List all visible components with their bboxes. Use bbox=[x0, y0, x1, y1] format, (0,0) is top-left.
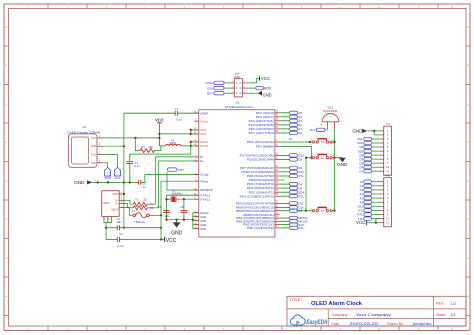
svg-text:6: 6 bbox=[387, 200, 389, 204]
svg-text:VBUS: VBUS bbox=[111, 207, 118, 211]
net label RST (ICSP) bbox=[207, 91, 230, 95]
svg-text:PD6(T1/OC4D#/ADC9): PD6(T1/OC4D#/ADC9) bbox=[242, 170, 275, 174]
rev text bbox=[436, 301, 456, 306]
net label A5 (P2) bbox=[360, 180, 380, 184]
svg-text:2: 2 bbox=[99, 143, 101, 146]
net label D9 (P1) bbox=[359, 153, 379, 157]
svg-text:SDA: SDA bbox=[91, 161, 97, 165]
net label A4 (P2) bbox=[360, 184, 380, 188]
svg-text:PD3 (TXD1/INT3): PD3 (TXD1/INT3) bbox=[247, 182, 274, 186]
net label D11 (P2) bbox=[358, 209, 379, 213]
svg-text:P2: P2 bbox=[386, 174, 390, 178]
svg-text:K2: K2 bbox=[321, 157, 325, 160]
svg-text:GND: GND bbox=[91, 144, 97, 148]
net label SCK bbox=[279, 223, 304, 227]
wire crystal ground bus bbox=[165, 219, 194, 221]
svg-text:REV:: REV: bbox=[436, 301, 444, 305]
svg-text:D12: D12 bbox=[310, 128, 316, 132]
svg-text:4: 4 bbox=[99, 160, 101, 163]
title block grid bbox=[287, 296, 466, 326]
svg-text:GND: GND bbox=[113, 192, 119, 196]
svg-text:VCC: VCC bbox=[155, 118, 164, 123]
net label D6 bbox=[279, 166, 302, 170]
svg-text:BUZZER: BUZZER bbox=[323, 109, 338, 113]
svg-text:UCap: UCap bbox=[200, 173, 209, 177]
node AVCC branch junction bbox=[190, 145, 192, 147]
net label A2 (P2) bbox=[360, 192, 380, 196]
push button K1 bbox=[310, 139, 335, 146]
net label A0 bbox=[279, 131, 302, 135]
svg-text:R1: R1 bbox=[135, 197, 139, 201]
svg-text:0805: 0805 bbox=[170, 141, 177, 145]
svg-text:D: D bbox=[5, 142, 7, 144]
net label A1 bbox=[279, 127, 302, 131]
svg-text:25: 25 bbox=[275, 178, 278, 180]
net port SCL bbox=[115, 167, 121, 179]
svg-text:9: 9 bbox=[340, 6, 342, 8]
svg-text:5: 5 bbox=[184, 6, 186, 8]
net label RXL bbox=[279, 226, 304, 230]
svg-text:6: 6 bbox=[239, 91, 241, 95]
node VCC rail junctions bbox=[134, 133, 160, 139]
svg-text:E: E bbox=[5, 181, 7, 183]
svg-text:PD2 (RXD1/INT2): PD2 (RXD1/INT2) bbox=[247, 186, 274, 190]
svg-text:7: 7 bbox=[262, 6, 264, 8]
svg-text:E: E bbox=[467, 181, 469, 183]
svg-text:P1: P1 bbox=[386, 122, 390, 126]
svg-text:11: 11 bbox=[275, 216, 278, 218]
wire ground rail bbox=[93, 181, 139, 183]
svg-text:1.0: 1.0 bbox=[450, 301, 456, 306]
svg-text:2020-03-20: 2020-03-20 bbox=[350, 321, 379, 326]
capacitor C6 bbox=[180, 198, 187, 220]
net label MISO (ICSP) bbox=[205, 81, 229, 85]
svg-text:H: H bbox=[5, 296, 7, 298]
power flag VCC at ICSP bbox=[247, 76, 271, 83]
wire PE6 to K1 (net D7) bbox=[279, 137, 311, 143]
ground port GND left bbox=[74, 180, 92, 185]
svg-text:PC7(ICP3/CLK0/OC4A): PC7(ICP3/CLK0/OC4A) bbox=[240, 154, 274, 158]
net label MISO bbox=[279, 216, 308, 220]
svg-text:USB1: USB1 bbox=[102, 201, 110, 205]
wire VCC to MCU VCC pins bbox=[159, 129, 198, 135]
net label A0 (P2) bbox=[360, 200, 380, 204]
resistor R2 bbox=[124, 202, 154, 210]
wire L1 to AVCC pins bbox=[181, 141, 199, 146]
svg-text:Date:: Date: bbox=[331, 322, 339, 326]
wire button right rail bbox=[333, 130, 335, 212]
svg-text:26: 26 bbox=[275, 170, 278, 172]
wire USB shell to cap loop bbox=[105, 223, 107, 240]
net label D12 bbox=[279, 170, 304, 174]
wire C3 to MCU UCap bbox=[145, 175, 199, 183]
svg-text:A0: A0 bbox=[298, 131, 302, 135]
svg-text:16MHz: 16MHz bbox=[171, 192, 182, 196]
svg-text:F: F bbox=[467, 219, 469, 221]
net port SDA bbox=[105, 167, 111, 179]
svg-text:RESET#: RESET# bbox=[200, 188, 213, 192]
net label D0 bbox=[279, 186, 302, 190]
svg-text:UVcc: UVcc bbox=[200, 119, 209, 123]
net label D5 bbox=[279, 158, 302, 162]
net label D13 bbox=[279, 154, 304, 158]
svg-text:PB7(OC0A/OC1C/PCINT7/RTS#): PB7(OC0A/OC1C/PCINT7/RTS#) bbox=[236, 202, 274, 206]
svg-text:2: 2 bbox=[387, 184, 389, 188]
inductor L1 bbox=[159, 138, 180, 146]
svg-text:PD1 (SDA/INT1): PD1 (SDA/INT1) bbox=[249, 190, 274, 194]
svg-text:33: 33 bbox=[275, 144, 278, 146]
net label TXL bbox=[279, 174, 304, 178]
svg-text:4: 4 bbox=[387, 141, 389, 145]
net label D11 bbox=[279, 202, 304, 206]
power flag VCC top bbox=[155, 118, 164, 146]
svg-text:1: 1 bbox=[387, 129, 389, 133]
date row bbox=[331, 321, 431, 326]
svg-text:11: 11 bbox=[417, 6, 420, 8]
net label A1 (P2) bbox=[360, 196, 380, 200]
svg-text:41: 41 bbox=[275, 111, 278, 113]
svg-text:8: 8 bbox=[301, 6, 303, 8]
svg-text:RST: RST bbox=[207, 91, 213, 95]
svg-text:U2: U2 bbox=[82, 125, 86, 129]
svg-text:31: 31 bbox=[275, 157, 278, 159]
net label RXL (P2) bbox=[358, 213, 380, 217]
net label D9 bbox=[279, 209, 302, 213]
svg-text:VCC: VCC bbox=[200, 132, 207, 136]
svg-text:PE2 (HWB#): PE2 (HWB#) bbox=[256, 145, 274, 149]
svg-text:PF0 (ADC0): PF0 (ADC0) bbox=[256, 111, 274, 115]
svg-text:PB0 (SS/PCINT0): PB0 (SS/PCINT0) bbox=[247, 226, 274, 230]
svg-text:10k: 10k bbox=[148, 145, 153, 149]
USB1 pins bbox=[113, 192, 125, 208]
net label A3 (P2) bbox=[360, 188, 380, 192]
svg-text:5: 5 bbox=[387, 196, 389, 200]
pin header P2 bbox=[379, 174, 391, 227]
wire button left rail bbox=[305, 157, 307, 212]
svg-text:7: 7 bbox=[108, 219, 110, 221]
svg-text:28: 28 bbox=[275, 213, 278, 215]
USB connector USB1 body bbox=[102, 191, 120, 217]
svg-text:32: 32 bbox=[275, 153, 278, 155]
net label D13 (P2) bbox=[358, 205, 379, 209]
svg-text:GND: GND bbox=[263, 93, 273, 98]
svg-text:4: 4 bbox=[387, 192, 389, 196]
buzzer SG1 bbox=[320, 106, 339, 130]
svg-text:A: A bbox=[5, 26, 7, 29]
net label D12 (buzzer) bbox=[310, 128, 327, 132]
svg-text:B: B bbox=[467, 65, 469, 67]
svg-text:8: 8 bbox=[387, 208, 389, 212]
svg-text:D-: D- bbox=[116, 202, 119, 206]
node ground rail junctions bbox=[97, 181, 131, 183]
power port VCC at P2 bbox=[356, 219, 379, 226]
svg-text:1: 1 bbox=[275, 140, 277, 142]
svg-text:3: 3 bbox=[387, 137, 389, 141]
svg-text:D+: D+ bbox=[200, 159, 204, 163]
wire OLED GND to ground spine bbox=[104, 145, 124, 147]
svg-text:ATMEGA32U4-AU: ATMEGA32U4-AU bbox=[225, 105, 253, 109]
net label A4 bbox=[279, 115, 302, 119]
svg-text:MISO: MISO bbox=[205, 81, 213, 85]
svg-text:2: 2 bbox=[67, 6, 69, 8]
wire AVCC pin 44 stub link bbox=[191, 145, 199, 147]
svg-text:OLED Alarm Clock: OLED Alarm Clock bbox=[311, 301, 362, 307]
svg-text:Sheet:: Sheet: bbox=[436, 313, 446, 317]
svg-text:MOSI: MOSI bbox=[264, 86, 271, 90]
svg-text:7: 7 bbox=[387, 204, 389, 208]
U1 right pins bbox=[236, 111, 280, 230]
microcontroller U1 reference and name bbox=[225, 101, 253, 110]
svg-text:PD4(ICP1/ADC8): PD4(ICP1/ADC8) bbox=[249, 178, 274, 182]
net label D4 (P1) bbox=[359, 165, 379, 169]
svg-text:1: 1 bbox=[27, 6, 29, 8]
svg-text:27: 27 bbox=[275, 166, 278, 168]
svg-text:PC6(OC3A/OC4A#): PC6(OC3A/OC4A#) bbox=[247, 158, 274, 162]
svg-text:SCL: SCL bbox=[298, 194, 304, 198]
wire VBUS down to cap loop bbox=[160, 215, 162, 239]
svg-text:0.1u: 0.1u bbox=[134, 164, 140, 168]
USB1 shell pins bbox=[104, 216, 112, 222]
net label D6 (P1) bbox=[359, 157, 379, 161]
svg-text:11: 11 bbox=[386, 169, 389, 173]
svg-text:7: 7 bbox=[387, 153, 389, 157]
ground port at P1 bbox=[352, 128, 379, 135]
svg-text:6: 6 bbox=[387, 149, 389, 153]
fuse F1 bbox=[124, 207, 149, 224]
svg-text:18: 18 bbox=[275, 194, 278, 196]
ICSP header P3 bbox=[230, 72, 247, 97]
svg-text:GND: GND bbox=[171, 230, 183, 236]
ground symbol at ICSP bbox=[247, 91, 272, 98]
svg-text:3: 3 bbox=[106, 6, 108, 8]
svg-text:C: C bbox=[5, 104, 7, 106]
svg-text:VCC: VCC bbox=[91, 136, 97, 140]
svg-text:1/1: 1/1 bbox=[450, 312, 456, 317]
svg-text:pecacheu: pecacheu bbox=[413, 321, 432, 326]
wire PD4 stub bbox=[279, 179, 284, 181]
svg-text:12: 12 bbox=[275, 201, 278, 203]
OLED U2 pins bbox=[91, 135, 104, 165]
svg-text:SCL: SCL bbox=[91, 153, 97, 157]
svg-text:5: 5 bbox=[236, 91, 238, 95]
svg-text:37: 37 bbox=[275, 127, 278, 129]
svg-text:U1: U1 bbox=[236, 101, 240, 105]
net label MOSI (ICSP) bbox=[247, 86, 271, 90]
svg-text:C: C bbox=[467, 104, 469, 106]
svg-text:SDA: SDA bbox=[105, 176, 111, 180]
svg-text:GND: GND bbox=[337, 162, 348, 167]
net label A3 bbox=[279, 119, 302, 123]
svg-text:3: 3 bbox=[387, 188, 389, 192]
svg-text:PD7 (T0/OC4D/ADC10): PD7 (T0/OC4D/ADC10) bbox=[240, 166, 274, 170]
svg-text:21: 21 bbox=[275, 182, 278, 184]
net label A2 bbox=[279, 123, 302, 127]
net label SDA (P1) bbox=[357, 141, 379, 145]
svg-text:AVCC: AVCC bbox=[200, 144, 209, 148]
wire D9 to K3 bbox=[297, 210, 307, 212]
svg-text:22p: 22p bbox=[165, 214, 170, 218]
svg-text:F1: F1 bbox=[132, 209, 136, 213]
net label D10 (P1) bbox=[358, 149, 379, 153]
svg-text:D7: D7 bbox=[289, 137, 293, 141]
push button K3 bbox=[306, 207, 335, 214]
net label D4 bbox=[279, 182, 302, 186]
svg-text:1u: 1u bbox=[143, 185, 147, 189]
ground symbol near K2 bbox=[335, 158, 349, 167]
svg-text:GND: GND bbox=[200, 227, 207, 231]
svg-text:12: 12 bbox=[451, 6, 454, 8]
svg-text:20: 20 bbox=[275, 186, 278, 188]
net label MOSI bbox=[279, 220, 307, 224]
OLED display U2 reference and name bbox=[67, 125, 101, 134]
svg-text:40: 40 bbox=[275, 115, 278, 117]
svg-text:22: 22 bbox=[275, 174, 278, 176]
svg-text:8: 8 bbox=[387, 157, 389, 161]
svg-text:9: 9 bbox=[275, 223, 277, 225]
svg-text:C5: C5 bbox=[158, 205, 162, 209]
svg-text:H: H bbox=[467, 296, 469, 298]
svg-text:1: 1 bbox=[236, 81, 238, 85]
resistor R1 bbox=[124, 197, 147, 206]
svg-text:4: 4 bbox=[239, 86, 241, 90]
svg-text:K3: K3 bbox=[321, 210, 325, 213]
svg-text:5: 5 bbox=[387, 145, 389, 149]
svg-text:R3: R3 bbox=[141, 145, 145, 149]
svg-text:1: 1 bbox=[99, 135, 101, 138]
net label RST bbox=[167, 168, 199, 190]
svg-text:PB5(PCINT5/OC1A/OC4B#/ADC12): PB5(PCINT5/OC1A/OC4B#/ADC12) bbox=[236, 209, 274, 213]
wire PE2 to K2 bbox=[279, 147, 312, 159]
svg-text:PD0 (OC0B/SCL/INT0): PD0 (OC0B/SCL/INT0) bbox=[240, 194, 274, 198]
svg-text:Company:: Company: bbox=[331, 313, 348, 317]
svg-text:PF5 (ADC5/TMS): PF5 (ADC5/TMS) bbox=[249, 123, 274, 127]
svg-text:29: 29 bbox=[275, 209, 278, 211]
wire ground spine vertical bbox=[123, 113, 125, 228]
crystal X1 bbox=[165, 189, 198, 220]
svg-text:2: 2 bbox=[387, 133, 389, 137]
svg-text:3: 3 bbox=[99, 152, 101, 155]
capacitor C5 bbox=[158, 205, 171, 220]
svg-text:VCC: VCC bbox=[166, 238, 177, 244]
svg-text:1: 1 bbox=[311, 213, 313, 215]
power flag VCC bottom bbox=[161, 237, 177, 244]
svg-text:10: 10 bbox=[386, 165, 389, 169]
svg-text:1: 1 bbox=[311, 144, 313, 146]
wire OLED SDA to SDA flag bbox=[104, 163, 108, 168]
svg-text:C6: C6 bbox=[180, 205, 184, 209]
svg-text:G: G bbox=[5, 258, 7, 260]
svg-text:GND: GND bbox=[74, 180, 85, 185]
net label SCL bbox=[279, 194, 304, 198]
svg-text:PD5 (XCK1/CTS#): PD5 (XCK1/CTS#) bbox=[247, 174, 274, 178]
svg-text:0.1u: 0.1u bbox=[118, 244, 124, 248]
net label D8 (P1) bbox=[359, 145, 379, 149]
svg-text:C7: C7 bbox=[175, 107, 179, 111]
svg-text:+: + bbox=[320, 122, 323, 127]
svg-text:RST: RST bbox=[178, 168, 184, 172]
svg-text:Drawn By:: Drawn By: bbox=[387, 322, 404, 326]
svg-text:A: A bbox=[467, 26, 469, 29]
svg-text:2: 2 bbox=[239, 81, 241, 85]
net label SCL (P1) bbox=[358, 137, 380, 141]
microcontroller U1 body bbox=[199, 110, 275, 237]
net label D1 (P1) bbox=[359, 169, 379, 173]
wire VCC pin 34 stub link bbox=[191, 133, 199, 135]
svg-text:39: 39 bbox=[275, 119, 278, 121]
svg-text:PF1 (ADC1): PF1 (ADC1) bbox=[256, 115, 274, 119]
svg-text:22: 22 bbox=[144, 197, 148, 201]
capacitor C1 bbox=[106, 217, 161, 230]
svg-text:PF6 (ADC6/TDO): PF6 (ADC6/TDO) bbox=[249, 127, 274, 131]
svg-text:AREF: AREF bbox=[200, 111, 208, 115]
pin header P1 bbox=[379, 122, 391, 175]
wire R2 to MCU D+ pin bbox=[147, 161, 199, 208]
net label D5 (P1) bbox=[359, 161, 379, 165]
title text bbox=[289, 298, 362, 307]
svg-text:EasyEDA: EasyEDA bbox=[306, 319, 327, 326]
svg-text:PE6 (INT4/AIN0): PE6 (INT4/AIN0) bbox=[247, 140, 274, 144]
svg-text:Your Company: Your Company bbox=[356, 312, 391, 317]
svg-text:10: 10 bbox=[386, 217, 389, 221]
svg-text:RXL: RXL bbox=[298, 226, 304, 230]
svg-text:10u: 10u bbox=[116, 220, 121, 224]
svg-text:VCC: VCC bbox=[356, 220, 366, 225]
svg-text:4: 4 bbox=[145, 6, 147, 8]
svg-text:750mA: 750mA bbox=[134, 220, 145, 224]
wire OLED SCL to SCL flag bbox=[104, 155, 118, 168]
svg-text:TITLE:: TITLE: bbox=[289, 298, 302, 302]
wire fuse to VBus bbox=[149, 181, 199, 216]
svg-text:30: 30 bbox=[275, 205, 278, 207]
svg-text:F: F bbox=[6, 219, 8, 221]
capacitor C3 bbox=[139, 180, 147, 189]
resistor R3 bbox=[135, 138, 161, 153]
push button K2 bbox=[306, 154, 335, 161]
svg-text:VCC: VCC bbox=[261, 76, 271, 81]
svg-text:11: 11 bbox=[386, 221, 389, 225]
node cap loop right junctions bbox=[123, 227, 162, 241]
company row bbox=[331, 312, 456, 317]
svg-text:SCL: SCL bbox=[115, 176, 121, 180]
svg-text:1: 1 bbox=[311, 160, 313, 162]
svg-text:VBus: VBus bbox=[200, 179, 209, 183]
svg-text:D5: D5 bbox=[298, 158, 302, 162]
svg-text:TXL: TXL bbox=[298, 174, 304, 178]
svg-text:D1: D1 bbox=[359, 169, 363, 173]
capacitor C2 bbox=[106, 232, 161, 248]
svg-text:PF4 (ADC4/TCK): PF4 (ADC4/TCK) bbox=[249, 119, 274, 123]
OLED display U2 body bbox=[68, 134, 97, 167]
wire C4/AVCC branch bbox=[130, 146, 191, 154]
svg-text:36: 36 bbox=[275, 131, 278, 133]
svg-text:38: 38 bbox=[275, 123, 278, 125]
svg-text:D: D bbox=[467, 142, 469, 144]
net label SDA bbox=[279, 190, 304, 194]
node cap loop left junction bbox=[105, 227, 107, 229]
svg-text:9: 9 bbox=[387, 161, 389, 165]
svg-text:19: 19 bbox=[275, 190, 278, 192]
net label A5 bbox=[279, 111, 302, 115]
capacitor C7 bbox=[124, 107, 199, 122]
svg-text:6: 6 bbox=[223, 6, 225, 8]
wire OLED VCC to VCC rail bbox=[104, 137, 160, 139]
svg-text:10: 10 bbox=[378, 6, 381, 8]
ground symbol below crystal bbox=[171, 220, 183, 237]
svg-text:XTAL1: XTAL1 bbox=[200, 197, 211, 201]
svg-text:G: G bbox=[467, 258, 469, 260]
capacitor C4 bbox=[127, 154, 141, 182]
net label TXL (P2) bbox=[358, 217, 379, 221]
